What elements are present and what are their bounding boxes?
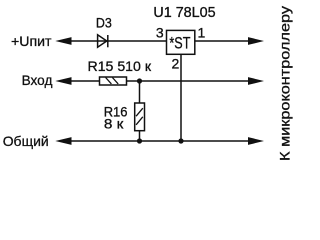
svg-text:8 к: 8 к bbox=[104, 115, 124, 131]
svg-text:Вход: Вход bbox=[22, 72, 53, 88]
svg-text:Общий: Общий bbox=[3, 133, 49, 149]
svg-text:К микроконтроллеру: К микроконтроллеру bbox=[276, 6, 292, 161]
svg-text:+Uпит: +Uпит bbox=[11, 33, 52, 49]
svg-text:*ST: *ST bbox=[169, 35, 190, 53]
svg-text:D3: D3 bbox=[96, 15, 112, 31]
svg-text:U1 78L05: U1 78L05 bbox=[153, 5, 215, 21]
svg-text:3: 3 bbox=[156, 24, 164, 40]
svg-text:1: 1 bbox=[198, 24, 206, 40]
svg-text:R15 510 к: R15 510 к bbox=[88, 58, 152, 74]
svg-text:2: 2 bbox=[172, 56, 180, 72]
